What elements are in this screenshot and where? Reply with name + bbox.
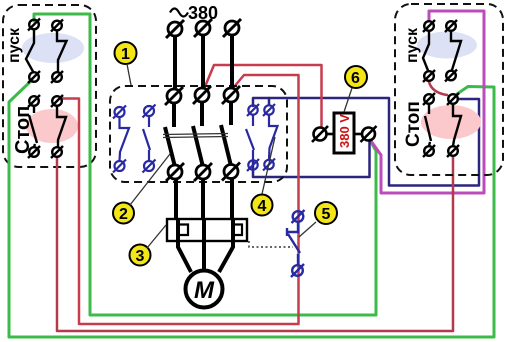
svg-text:5: 5 bbox=[322, 206, 331, 223]
Стоп-L left contact blade bbox=[29, 106, 37, 147]
wire red net3: Стоп-L bottom-right to Стоп-R bottom-right bbox=[57, 156, 453, 331]
motor feed lines bbox=[178, 241, 233, 272]
contactor main contact terminals bottom row bbox=[166, 163, 240, 182]
contactor linkage bar bbox=[163, 134, 228, 138]
label 1 bbox=[115, 42, 137, 64]
пуск-L button contacts bbox=[26, 19, 67, 84]
svg-text:Стоп: Стоп bbox=[403, 101, 424, 147]
phase L3 line bbox=[223, 19, 241, 87]
contactor box (1) bbox=[110, 86, 287, 182]
contactor main contact blades bbox=[165, 102, 231, 167]
wire magenta: coil right terminal to пуск-R top-left bbox=[371, 11, 484, 193]
svg-text:1: 1 bbox=[121, 46, 130, 63]
thermal NC contact (5) bbox=[287, 210, 305, 277]
пуск highlight ellipse (right) bbox=[417, 32, 477, 59]
contactor aux contacts left pair bbox=[113, 105, 156, 173]
phase L1 line bbox=[166, 20, 184, 88]
lines from contactor to thermal relay bbox=[176, 179, 232, 219]
coil box 380V (6) bbox=[334, 113, 354, 153]
~380 supply label bbox=[170, 9, 188, 17]
Стоп-R button contacts bbox=[423, 93, 461, 157]
label 5 bbox=[315, 202, 337, 224]
contactor main contact terminals top row bbox=[165, 86, 240, 105]
wire blue net: contactor aux to coil and Стоп-R bbox=[253, 98, 479, 186]
пуск button highlight ellipse (left) bbox=[22, 33, 84, 63]
thermal relay box (3) bbox=[167, 219, 247, 241]
Стоп-L right contact blade bbox=[57, 106, 66, 147]
svg-text:3: 3 bbox=[136, 248, 145, 265]
label 2 bbox=[113, 203, 134, 224]
svg-text:M: M bbox=[194, 277, 215, 304]
wire green net B: пуск-L bottom-left around bottom to Стоп-R top-right bbox=[9, 80, 494, 337]
Стоп button highlight ellipse (left) bbox=[26, 109, 78, 143]
label 6 bbox=[345, 66, 367, 88]
svg-text:6: 6 bbox=[351, 70, 360, 87]
left control station box bbox=[3, 5, 96, 167]
svg-text:4: 4 bbox=[258, 198, 267, 215]
relay heater right bracket bbox=[233, 225, 242, 236]
label 3 bbox=[130, 245, 151, 266]
svg-text:380 V: 380 V bbox=[337, 114, 352, 148]
wire red curve: пуск-R bottom-left to Стоп-R top-right bbox=[429, 82, 447, 95]
пуск-L left contact blade bbox=[26, 30, 34, 72]
phase L2 line bbox=[194, 19, 212, 87]
right control station box bbox=[395, 4, 503, 175]
wire red net2: phase3 down through thermal contact to Стоп-L top-right bbox=[62, 75, 299, 324]
wire red net1: phase2 to coil left terminal bbox=[204, 65, 322, 127]
svg-text:пуск: пуск bbox=[404, 27, 421, 63]
relay heater left bracket bbox=[179, 225, 188, 236]
contactor aux contacts right pair bbox=[246, 104, 278, 171]
terminal circles Стоп-L bbox=[29, 96, 39, 106]
wire blue stub aux top second bbox=[268, 98, 271, 105]
svg-text:Стоп: Стоп bbox=[12, 106, 34, 154]
label 4 bbox=[252, 195, 273, 216]
Стоп highlight ellipse (right) bbox=[421, 105, 481, 139]
svg-text:пуск: пуск bbox=[6, 27, 23, 63]
coil right terminal bbox=[354, 126, 377, 142]
wire blue lower branch to aux bottom terminal bbox=[253, 141, 370, 177]
terminal circles пуск-L bbox=[29, 20, 39, 30]
пуск-L right contact blade bbox=[57, 31, 67, 72]
dotted mechanical link relay to thermal contact bbox=[249, 241, 293, 247]
relay phase pass lines bbox=[178, 219, 233, 241]
svg-text:2: 2 bbox=[119, 206, 128, 223]
coil left terminal bbox=[312, 126, 334, 142]
wire green net A: пуск-L top-left to coil right terminal bbox=[34, 14, 376, 315]
пуск-R button contacts bbox=[423, 20, 461, 82]
motor M bbox=[186, 271, 223, 308]
Стоп-L button contacts bbox=[28, 95, 66, 158]
